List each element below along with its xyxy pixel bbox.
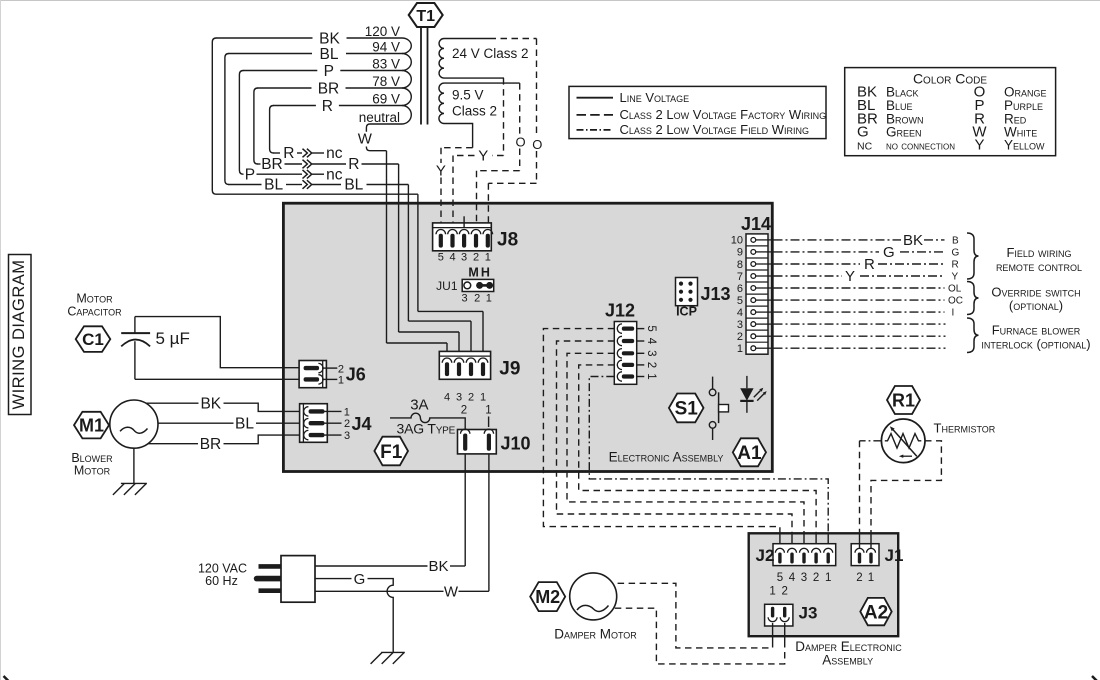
svg-text:Green: Green — [886, 125, 922, 140]
svg-text:2: 2 — [474, 293, 480, 305]
svg-text:4: 4 — [789, 572, 796, 584]
svg-text:J8: J8 — [497, 230, 518, 251]
svg-text:J6: J6 — [346, 365, 366, 385]
svg-text:R: R — [348, 156, 359, 173]
svg-text:3: 3 — [462, 293, 468, 305]
svg-text:2: 2 — [737, 331, 743, 343]
svg-text:24 V Class 2: 24 V Class 2 — [452, 46, 529, 61]
svg-text:8: 8 — [737, 259, 743, 271]
svg-text:2: 2 — [338, 363, 344, 375]
svg-text:H: H — [481, 266, 490, 280]
svg-text:2: 2 — [461, 405, 467, 417]
svg-text:A1: A1 — [737, 443, 762, 464]
svg-text:G: G — [883, 244, 895, 261]
svg-text:BK: BK — [428, 558, 448, 575]
svg-text:nc: nc — [326, 145, 343, 162]
svg-text:4: 4 — [444, 391, 450, 403]
svg-text:F1: F1 — [380, 442, 403, 463]
svg-text:W: W — [444, 584, 459, 601]
svg-text:M: M — [468, 266, 478, 280]
svg-text:1: 1 — [737, 343, 743, 355]
svg-text:J13: J13 — [701, 284, 731, 304]
svg-text:Y: Y — [845, 268, 855, 285]
svg-text:9.5 V: 9.5 V — [452, 88, 484, 103]
svg-text:R: R — [322, 98, 333, 115]
svg-text:3: 3 — [456, 391, 462, 403]
svg-text:5: 5 — [737, 295, 743, 307]
svg-text:60 Hz: 60 Hz — [205, 574, 238, 588]
svg-text:OC: OC — [948, 296, 963, 307]
svg-text:1: 1 — [769, 586, 775, 598]
svg-text:3: 3 — [344, 430, 350, 442]
svg-text:Y: Y — [436, 163, 446, 180]
svg-text:Electronic Assembly: Electronic Assembly — [609, 450, 724, 465]
svg-text:R1: R1 — [892, 391, 915, 411]
svg-text:J3: J3 — [799, 604, 818, 623]
svg-text:78 V: 78 V — [372, 74, 400, 89]
svg-text:P: P — [324, 63, 334, 80]
svg-text:2: 2 — [856, 572, 862, 584]
svg-text:R: R — [283, 145, 294, 162]
svg-text:remote control: remote control — [996, 259, 1082, 274]
svg-text:Motor: Motor — [74, 464, 111, 478]
svg-text:Yellow: Yellow — [1004, 137, 1045, 152]
svg-text:J4: J4 — [352, 414, 372, 434]
svg-text:M1: M1 — [79, 416, 104, 436]
svg-text:5 µF: 5 µF — [156, 329, 190, 348]
svg-text:BK: BK — [319, 31, 340, 48]
svg-text:Furnace blower: Furnace blower — [992, 323, 1081, 338]
svg-text:3: 3 — [461, 252, 467, 264]
svg-text:1: 1 — [338, 375, 344, 387]
svg-text:1: 1 — [485, 405, 491, 417]
svg-text:ICP: ICP — [676, 304, 697, 318]
svg-text:Y: Y — [478, 147, 488, 164]
svg-text:J9: J9 — [499, 359, 520, 380]
svg-text:BR: BR — [200, 436, 222, 453]
svg-text:A2: A2 — [864, 602, 888, 623]
svg-text:5: 5 — [438, 252, 444, 264]
svg-text:C1: C1 — [82, 330, 104, 349]
svg-text:nc: nc — [326, 166, 343, 183]
svg-text:BK: BK — [903, 232, 923, 249]
svg-text:Assembly: Assembly — [822, 652, 873, 667]
svg-text:9: 9 — [737, 247, 743, 259]
svg-text:BL: BL — [264, 177, 283, 194]
svg-text:Thermistor: Thermistor — [934, 421, 996, 436]
svg-text:interlock (optional): interlock (optional) — [981, 337, 1090, 352]
svg-text:O: O — [515, 135, 525, 150]
svg-text:3: 3 — [645, 350, 657, 356]
svg-text:3A: 3A — [410, 397, 428, 414]
svg-text:Capacitor: Capacitor — [67, 305, 122, 319]
svg-text:1: 1 — [480, 391, 486, 403]
svg-text:7: 7 — [737, 271, 743, 283]
svg-text:BL: BL — [320, 46, 339, 63]
svg-text:S1: S1 — [675, 399, 699, 420]
svg-text:B: B — [952, 236, 959, 247]
svg-text:G: G — [354, 571, 366, 588]
svg-text:2: 2 — [468, 391, 474, 403]
svg-text:J2: J2 — [756, 546, 775, 565]
svg-text:1: 1 — [868, 572, 874, 584]
svg-text:2: 2 — [813, 572, 819, 584]
svg-text:NC: NC — [857, 140, 873, 152]
svg-text:120 V: 120 V — [365, 24, 400, 39]
svg-text:no connection: no connection — [886, 140, 955, 152]
svg-text:1: 1 — [825, 572, 831, 584]
svg-text:(optional): (optional) — [1009, 298, 1063, 313]
svg-text:4: 4 — [645, 338, 657, 345]
svg-text:P: P — [245, 166, 255, 183]
svg-text:J1: J1 — [885, 546, 904, 565]
svg-text:BK: BK — [200, 395, 221, 412]
svg-text:BR: BR — [318, 81, 340, 98]
svg-text:Y: Y — [952, 272, 959, 283]
svg-text:Class 2: Class 2 — [452, 104, 497, 119]
svg-text:neutral: neutral — [359, 110, 400, 125]
svg-text:2: 2 — [473, 252, 479, 264]
svg-text:2: 2 — [781, 586, 787, 598]
svg-text:3AG Type: 3AG Type — [397, 421, 456, 437]
svg-text:5: 5 — [645, 325, 657, 331]
svg-text:WIRING DIAGRAM: WIRING DIAGRAM — [10, 260, 28, 410]
svg-text:3: 3 — [737, 319, 743, 331]
svg-text:M2: M2 — [535, 587, 560, 607]
svg-text:J14: J14 — [741, 214, 771, 234]
svg-text:Y: Y — [974, 136, 984, 153]
svg-text:4: 4 — [449, 252, 455, 264]
svg-text:T1: T1 — [416, 8, 435, 25]
svg-text:Class 2 Low Voltage Factory Wi: Class 2 Low Voltage Factory Wiring — [620, 107, 827, 122]
svg-text:Motor: Motor — [76, 292, 113, 306]
svg-text:1: 1 — [344, 406, 350, 418]
svg-text:W: W — [358, 131, 373, 148]
svg-text:Damper Motor: Damper Motor — [554, 627, 637, 642]
svg-text:BL: BL — [235, 415, 254, 432]
svg-text:1: 1 — [485, 252, 491, 264]
svg-text:BL: BL — [344, 177, 363, 194]
svg-text:3: 3 — [801, 572, 807, 584]
svg-text:R: R — [952, 260, 959, 271]
svg-text:Field wiring: Field wiring — [1006, 245, 1071, 260]
svg-text:J12: J12 — [605, 300, 635, 320]
svg-text:94 V: 94 V — [372, 40, 400, 55]
svg-text:10: 10 — [731, 235, 743, 247]
svg-text:83 V: 83 V — [372, 57, 400, 72]
svg-text:Class 2 Low Voltage Field Wiri: Class 2 Low Voltage Field Wiring — [620, 122, 809, 137]
svg-text:O: O — [532, 137, 542, 152]
svg-text:69 V: 69 V — [372, 92, 400, 107]
svg-text:J10: J10 — [501, 434, 531, 454]
svg-text:G: G — [857, 124, 869, 141]
svg-text:I: I — [952, 308, 955, 319]
svg-text:1: 1 — [486, 293, 492, 305]
svg-text:BR: BR — [261, 156, 283, 173]
svg-text:6: 6 — [737, 283, 743, 295]
svg-text:2: 2 — [344, 418, 350, 430]
svg-text:OL: OL — [948, 284, 962, 295]
svg-text:R: R — [864, 256, 875, 273]
svg-text:1: 1 — [645, 373, 657, 379]
svg-text:4: 4 — [737, 307, 743, 319]
svg-text:JU1: JU1 — [436, 279, 458, 293]
svg-text:G: G — [952, 248, 960, 259]
svg-text:2: 2 — [645, 362, 657, 368]
svg-text:Line Voltage: Line Voltage — [620, 90, 690, 105]
svg-text:5: 5 — [777, 572, 783, 584]
